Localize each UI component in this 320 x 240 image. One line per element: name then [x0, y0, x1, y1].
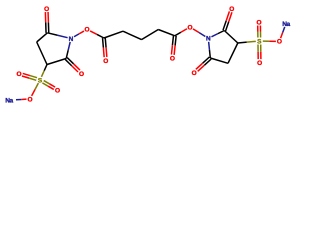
ring-L bond C5-C4 [47, 59, 66, 65]
ring-R bond C5r-N2 [209, 42, 211, 58]
double bond C2=O top-left [45, 12, 48, 33]
double bond S1=O lower-right [42, 81, 55, 90]
bond N1-O ester [74, 31, 84, 37]
svg-text:O: O [257, 60, 262, 67]
chain bond CH2b-CH2c [142, 30, 159, 40]
ring-R bond N2-C2r [211, 31, 224, 37]
double bond S1=O upper-left [22, 73, 37, 80]
bond C4-S1 [41, 65, 47, 77]
svg-text:S: S [257, 38, 262, 45]
svg-text:O: O [229, 6, 234, 13]
bond S1-O(Na) [32, 83, 39, 96]
chain bond CH2a-CH2b [123, 31, 142, 39]
chemical structure: bis(sulfosuccinimidyl) glutarate disodium salt [0, 0, 300, 112]
svg-text:O: O [84, 27, 89, 34]
svg-text:O: O [79, 71, 84, 78]
double bond S2=O bottom [258, 44, 261, 59]
svg-text:O: O [256, 19, 261, 26]
ring-R bond C3r-CH2r [228, 43, 238, 63]
svg-text:Na: Na [282, 21, 290, 28]
double bond S2=O top [258, 25, 261, 37]
bond O-C1 ester [90, 31, 104, 38]
ring-L bond C2-N1 [47, 33, 67, 38]
svg-text:N: N [69, 36, 74, 43]
svg-text:O: O [44, 6, 49, 13]
double bond C2r=O top-right [223, 11, 232, 31]
svg-text:O: O [170, 56, 175, 63]
svg-text:O: O [55, 87, 60, 94]
svg-text:O: O [192, 70, 197, 77]
chain bond CH2c-C2 [158, 30, 175, 36]
double bond C5r=O bottom-right [196, 57, 211, 71]
svg-text:O: O [103, 58, 108, 65]
chain bond C1-CH2a [104, 31, 123, 38]
svg-text:N: N [206, 36, 211, 43]
svg-text:S: S [38, 77, 43, 84]
double bond C5=O bottom-left [65, 58, 80, 72]
bond C2-O ester right [175, 29, 187, 36]
svg-text:O: O [277, 39, 282, 46]
ring-R bond C2r-C3r [224, 31, 238, 44]
ring-L bond C3-C2 [37, 33, 48, 42]
bond S2-O(Na) [263, 40, 276, 42]
ring-L bond C4-C3 [37, 42, 47, 65]
svg-text:Na: Na [5, 97, 13, 104]
ring-L bond N1-C5 [66, 42, 70, 59]
bond O-Na2 [281, 27, 285, 38]
svg-text:O: O [16, 71, 21, 78]
bond O-N2 ester [193, 29, 205, 37]
bond O-Na1 [16, 98, 27, 101]
double bond C2=O [171, 36, 176, 55]
svg-text:O: O [27, 96, 32, 103]
bond C3r-S2 [238, 41, 256, 43]
ring-R bond CH2r-C5r [210, 58, 228, 63]
double bond C1=O [103, 38, 107, 57]
svg-text:O: O [187, 24, 192, 31]
